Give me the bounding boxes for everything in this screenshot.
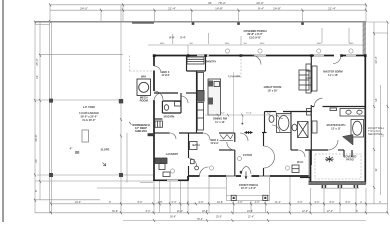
svg-text:ROOM: ROOM [140, 99, 148, 103]
svg-text:8'-0": 8'-0" [330, 201, 335, 204]
svg-text:MASTER BDRM: MASTER BDRM [323, 70, 342, 74]
svg-text:W/H: W/H [141, 75, 146, 79]
svg-text:12': 12' [35, 75, 39, 79]
svg-text:78'-0": 78'-0" [218, 1, 226, 5]
svg-text:3 CAR GARAGE: 3 CAR GARAGE [79, 111, 99, 115]
svg-text:SHELVES: SHELVES [135, 129, 147, 133]
svg-text:33'-4": 33'-4" [374, 56, 378, 63]
svg-text:78'-0": 78'-0" [197, 218, 203, 221]
svg-text:6'-8": 6'-8" [199, 201, 204, 204]
svg-text:1' CLG BRK: 1' CLG BRK [228, 76, 241, 78]
svg-text:5'-4": 5'-4" [172, 201, 177, 204]
svg-text:14' x 16': 14' x 16' [328, 73, 338, 77]
svg-text:6'-0": 6'-0" [315, 201, 320, 204]
svg-text:BATH: BATH [192, 143, 199, 147]
svg-text:20'-0": 20'-0" [216, 216, 222, 219]
svg-text:11': 11' [374, 168, 378, 172]
svg-text:24'-8": 24'-8" [273, 6, 281, 10]
svg-text:10'-8": 10'-8" [217, 201, 223, 204]
svg-text:10'-8": 10'-8" [202, 210, 208, 213]
svg-text:5'-0": 5'-0" [267, 113, 272, 115]
svg-text:9'-2": 9'-2" [220, 113, 225, 115]
svg-text:8'-0": 8'-0" [346, 201, 351, 204]
svg-text:L.P. TANK: L.P. TANK [83, 105, 95, 109]
svg-text:21'-4": 21'-4" [248, 216, 254, 219]
svg-text:12' x 11': 12' x 11' [331, 127, 341, 131]
svg-text:8'-0": 8'-0" [146, 210, 151, 213]
svg-text:36'-8": 36'-8" [170, 216, 176, 219]
svg-text:5'-4": 5'-4" [180, 36, 186, 40]
svg-text:11'x12': 11'x12' [161, 73, 170, 77]
svg-text:11'x11': 11'x11' [210, 141, 219, 145]
svg-text:11'-4": 11'-4" [275, 201, 281, 204]
svg-text:MASTER BATH: MASTER BATH [327, 123, 346, 127]
svg-text:11'-6": 11'-6" [246, 113, 252, 115]
svg-text:GREAT ROOM: GREAT ROOM [264, 85, 282, 89]
svg-text:W.I.C.: W.I.C. [297, 160, 304, 164]
svg-text:12': 12' [381, 133, 385, 137]
svg-text:21'-4": 21'-4" [177, 210, 183, 213]
svg-text:PATIO: PATIO [346, 158, 354, 162]
svg-text:10': 10' [34, 159, 38, 163]
svg-text:14'-8": 14'-8" [215, 6, 223, 10]
svg-text:24'-8": 24'-8" [247, 210, 253, 213]
svg-text:25'-0": 25'-0" [35, 58, 39, 65]
svg-text:4'-0": 4'-0" [238, 201, 243, 204]
svg-text:11' x 12': 11' x 12' [215, 120, 225, 124]
svg-text:14': 14' [374, 98, 378, 102]
svg-text:24'-0": 24'-0" [75, 201, 81, 204]
svg-text:36'-0" x 25'-0": 36'-0" x 25'-0" [81, 115, 99, 119]
svg-text:FOYER: FOYER [243, 153, 252, 157]
svg-text:6'-0": 6'-0" [298, 201, 303, 204]
svg-text:MUD RM: MUD RM [164, 115, 175, 119]
svg-text:SLOPE: SLOPE [101, 148, 110, 152]
svg-text:27'-4": 27'-4" [327, 210, 333, 213]
svg-text:36'-8": 36'-8" [112, 210, 118, 213]
svg-text:4'-8": 4'-8" [158, 201, 163, 204]
svg-text:LAUNDRY: LAUNDRY [166, 152, 179, 156]
svg-text:21'-4": 21'-4" [168, 6, 176, 10]
svg-text:21'-4": 21'-4" [328, 6, 336, 10]
svg-text:10'-0" x 6'-0": 10'-0" x 6'-0" [241, 186, 257, 190]
svg-text:9'-0": 9'-0" [169, 36, 175, 40]
svg-text:4'-0": 4'-0" [255, 201, 260, 204]
svg-text:12'-0": 12'-0" [302, 210, 308, 213]
svg-text:19' x 20': 19' x 20' [268, 89, 278, 93]
svg-text:24'-0": 24'-0" [80, 6, 88, 10]
svg-text:36'-8": 36'-8" [34, 134, 38, 141]
svg-text:CLG 9'-0": CLG 9'-0" [249, 35, 262, 39]
svg-text:8'-0": 8'-0" [138, 201, 143, 204]
svg-text:9'-4": 9'-4" [258, 6, 264, 10]
svg-text:44'-0": 44'-0" [256, 1, 264, 5]
svg-text:CLG 10'-0": CLG 10'-0" [82, 118, 96, 122]
svg-text:34': 34' [208, 1, 212, 5]
svg-text:PANTRY: PANTRY [206, 60, 217, 64]
